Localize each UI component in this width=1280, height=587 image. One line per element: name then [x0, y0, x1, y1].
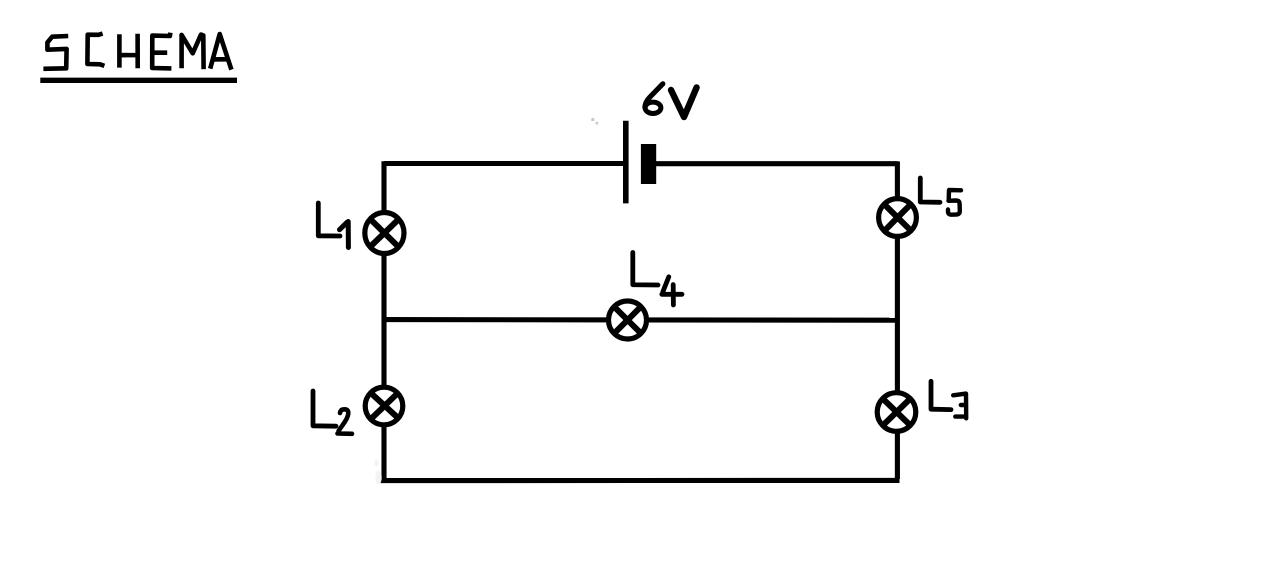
label L2 [313, 391, 352, 434]
battery value label 6V [645, 84, 697, 117]
lamp L5 [879, 199, 917, 237]
lamp L2 [365, 387, 403, 425]
battery B1 short thick plate (-) [641, 144, 656, 184]
battery B1 long plate (+) [623, 121, 629, 204]
lamp L3 [877, 393, 916, 432]
stray ink smudge near bottom-left corner [374, 460, 381, 485]
stray ink smudge near battery [591, 118, 598, 124]
lamp L4 [609, 301, 647, 339]
label L4 [633, 253, 682, 306]
title underline [40, 78, 237, 83]
wire top-right (battery right lead) [655, 161, 898, 166]
wire top-left (battery left lead) [384, 161, 624, 166]
label L1 [318, 203, 348, 248]
title SCHEMA [43, 33, 231, 70]
wire middle branch through L4 [383, 317, 899, 323]
label L5 [920, 178, 961, 215]
lamp L1 [365, 213, 404, 254]
wire left vertical branch [381, 161, 386, 480]
label L3 [931, 381, 966, 418]
wire bottom return [381, 478, 900, 483]
wire right vertical branch [895, 161, 900, 479]
